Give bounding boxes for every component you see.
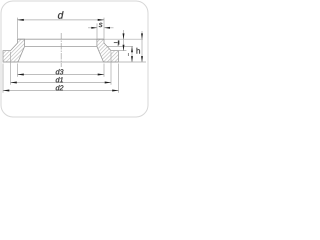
dimension line C (x=132) [131, 46, 133, 62]
arrow s left (pointing right) [91, 27, 97, 29]
part bottom outline line [3, 61, 119, 63]
extension line d2 right (x=118.5) [118, 64, 120, 93]
arrow B top (down, tip y=39.2) [141, 33, 143, 39]
arrow A bottom (down, tip y=50.6) [123, 45, 125, 51]
arrow d2 left [3, 90, 10, 92]
arrow d1 right [105, 82, 112, 84]
arrow d right [98, 19, 105, 21]
extension line d left top (x=17.5) [17, 18, 19, 39]
arrow C bottom (down, tip y=62) [131, 56, 133, 62]
arrow d3 left [17, 74, 24, 76]
arrow d3 right [98, 74, 105, 76]
arrow s right (pointing left) [104, 27, 110, 29]
extension line d2 left (x=3) [2, 64, 4, 93]
extension line s left top (x=97) [96, 23, 98, 38]
dimension line d1 [11, 82, 112, 84]
label h1 glyph (dim A) [114, 42, 118, 44]
part top outline line [18, 38, 105, 40]
arrow d left [17, 19, 24, 21]
part right half-section [97, 39, 119, 62]
arrow C top (up, tip y=46.4) [131, 46, 133, 52]
extension line d1 right (x=111) [110, 52, 112, 85]
extension line flange-top level right (y=50.6) [119, 50, 127, 52]
dimension line d [18, 19, 105, 21]
part inner web line [25, 45, 97, 47]
label d3 [56, 69, 64, 74]
extension line d1 left (x=10.5) [10, 52, 12, 85]
extension line d3 right bottom (x=104) [103, 64, 105, 77]
label d2 [56, 85, 64, 90]
extension line d/s right top (x=104) [103, 18, 105, 39]
label h (dim B) [137, 48, 140, 54]
part left half-section [3, 39, 25, 62]
dimension line s left tail [88, 27, 97, 29]
label d [58, 11, 64, 18]
extension line d3 left bottom (x=17.5) [17, 64, 19, 77]
border frame [1, 1, 148, 117]
arrow B bottom (down, tip y=62) [141, 56, 143, 62]
dimension line s right tail [104, 27, 113, 29]
extension line bottom level right (y=62) [119, 61, 147, 63]
arrow d2 right [112, 90, 119, 92]
extension line web level right (y=46.4) [107, 45, 133, 47]
arrow A top (down, tip y=39.2) [123, 33, 125, 39]
dimension line B (x=142) [141, 31, 143, 62]
label d1 [56, 77, 63, 82]
label s [99, 23, 103, 27]
extension line top-face level right (y=39.2) [104, 38, 143, 40]
dimension line d2 [3, 90, 119, 92]
arrow d1 left [10, 82, 17, 84]
dimension line d3 [18, 74, 105, 76]
centerline [60, 33, 62, 67]
dimension line A (x=123.5) [123, 30, 125, 51]
label 1 subscript (dim C) [127, 53, 129, 56]
